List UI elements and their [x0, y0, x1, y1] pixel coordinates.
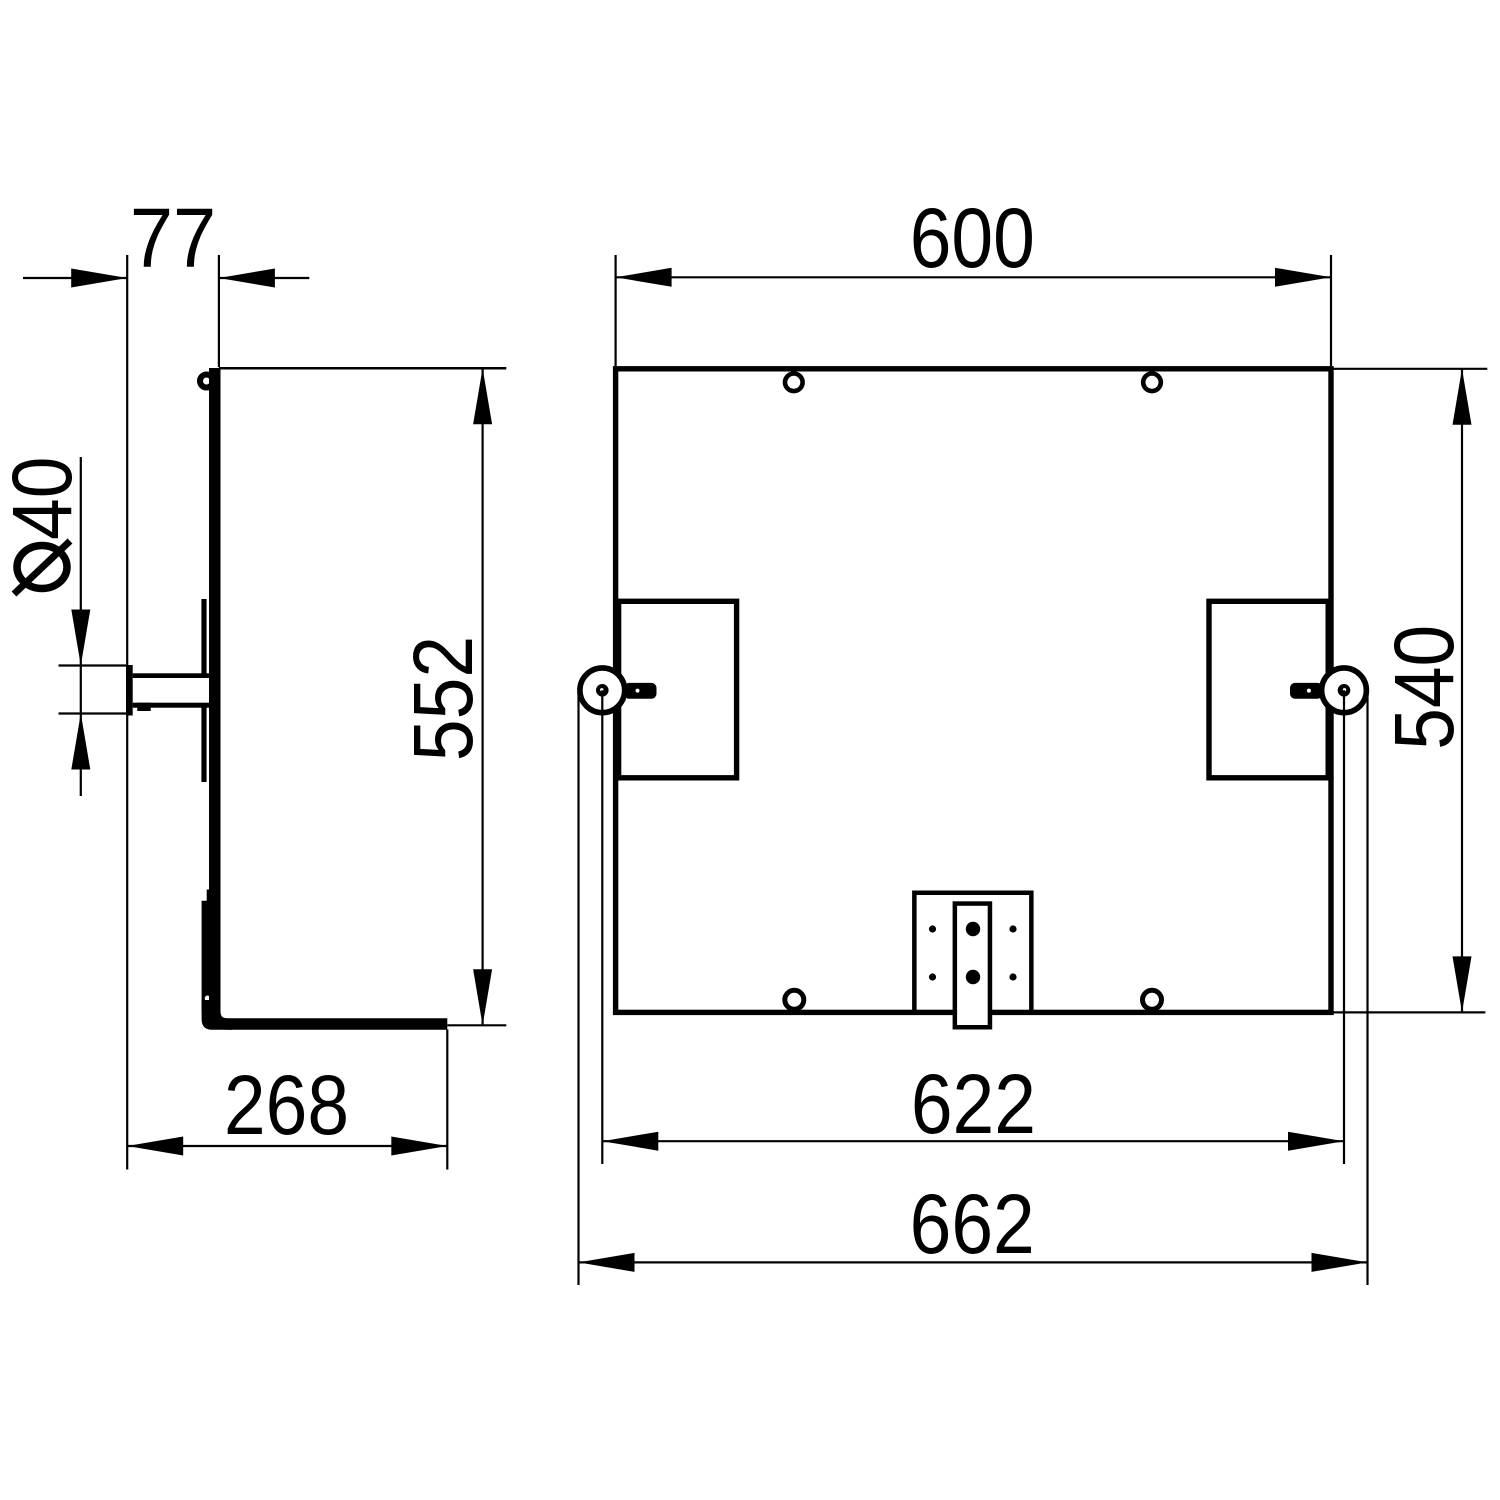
svg-text:622: 622 [911, 1057, 1036, 1151]
svg-text:662: 662 [910, 1177, 1035, 1271]
dimension 552 extension line bottom [447, 1024, 506, 1026]
bottom bracket outer plate [914, 893, 1031, 1013]
dimension 600 extension lines [616, 255, 1331, 366]
dimension 540 extension lines [1331, 369, 1487, 1013]
bottom mounting plate behind mirror [202, 890, 220, 1014]
dimension 268 extension line right [446, 1030, 448, 1170]
mirror body side profile [215, 368, 448, 1024]
wall pipe flange cap [126, 665, 133, 716]
mirror top edge line [219, 367, 506, 370]
dimension 662 label [910, 1177, 1035, 1271]
bracket hole top-right [1009, 925, 1016, 932]
bottom bracket strap [955, 904, 990, 1028]
dimension 552 line and arrows [473, 368, 492, 1025]
dimension 268 label [224, 1058, 349, 1152]
top screw hole right [1143, 374, 1161, 392]
svg-text:77: 77 [130, 192, 216, 286]
dimension 540 line and arrows [1453, 369, 1472, 1013]
svg-text:40: 40 [0, 457, 89, 540]
right lamp box [1209, 601, 1328, 778]
wall pipe bottom edge [133, 703, 213, 708]
bracket hole bottom-mid [966, 970, 980, 984]
bracket hole bottom-right [1009, 973, 1016, 980]
left pivot tab [624, 683, 657, 699]
bracket hole top-left [929, 925, 936, 932]
svg-text:268: 268 [224, 1058, 349, 1152]
svg-text:540: 540 [1377, 625, 1471, 750]
mid mounting plate behind mirror [201, 599, 206, 782]
bottom screw hole right [1143, 990, 1162, 1009]
dimension 77 extension line left [126, 255, 128, 1170]
right pivot tab [1290, 683, 1323, 699]
dimension 622 label [911, 1057, 1036, 1151]
mirror back panel rectangle [616, 369, 1331, 1013]
dimension 77 extension line right [218, 255, 220, 367]
dimension 622 line and arrows [602, 1132, 1344, 1151]
dimension 268 line and arrows [127, 1137, 447, 1156]
dimension 662 line and arrows [579, 1253, 1368, 1272]
bracket hole top-mid [966, 922, 980, 936]
dimension 622 extension lines [602, 690, 1344, 1164]
top screw hole left [785, 374, 803, 392]
bracket hole bottom-left [929, 973, 936, 980]
top hanger ring [200, 375, 213, 388]
bottom hanger ring hole [205, 996, 211, 1002]
dimension 77 label [130, 192, 216, 286]
right pivot circle [1322, 668, 1367, 713]
bottom screw hole left [785, 990, 804, 1009]
wall pipe top edge [133, 673, 213, 678]
dimension 600 line and arrows [616, 268, 1331, 287]
dimension D40 extension lines [59, 666, 127, 714]
dimension 552 label [396, 636, 490, 761]
left lamp box [619, 601, 737, 778]
dimension 540 label [1377, 625, 1471, 750]
dimension 600 label [910, 191, 1035, 285]
bottom-left corner fill [202, 1000, 232, 1030]
left pivot circle [580, 668, 625, 713]
dimension 662 extension lines [579, 692, 1368, 1285]
pipe screw bump [137, 703, 150, 711]
svg-text:552: 552 [396, 636, 490, 761]
dimension 77 line and arrows [23, 269, 309, 288]
svg-text:600: 600 [910, 191, 1035, 285]
dimension D40 line and arrows [71, 457, 90, 796]
dimension D40 label [0, 457, 89, 594]
